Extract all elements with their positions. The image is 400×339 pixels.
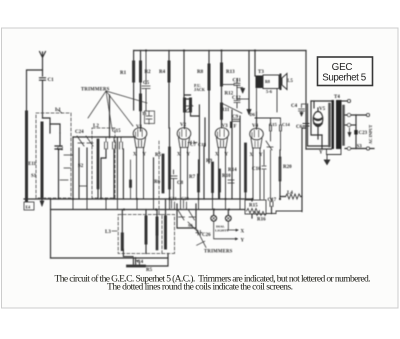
- svg-text:D6: D6: [250, 112, 256, 117]
- svg-text:L5: L5: [287, 79, 293, 84]
- svg-text:V2: V2: [180, 123, 187, 128]
- svg-text:TRIMMERS: TRIMMERS: [81, 88, 110, 93]
- svg-text:T4: T4: [334, 95, 340, 100]
- svg-text:X: X: [133, 153, 137, 158]
- svg-text:R20: R20: [283, 165, 292, 170]
- svg-text:C5: C5: [143, 81, 150, 86]
- svg-text:S2: S2: [78, 164, 84, 169]
- svg-text:X: X: [177, 153, 181, 158]
- svg-text:V5: V5: [319, 107, 326, 112]
- svg-text:R5: R5: [146, 268, 153, 273]
- svg-text:R4: R4: [159, 70, 166, 75]
- svg-text:S3: S3: [357, 145, 363, 150]
- svg-text:C12: C12: [232, 96, 241, 101]
- svg-text:R13: R13: [226, 70, 235, 75]
- svg-text:Y: Y: [187, 153, 191, 158]
- svg-text:L4: L4: [287, 191, 293, 196]
- svg-text:X: X: [241, 229, 245, 234]
- svg-text:C7: C7: [190, 143, 197, 148]
- svg-text:C21: C21: [169, 196, 177, 201]
- svg-text:C26: C26: [202, 233, 211, 238]
- svg-text:T3: T3: [258, 70, 264, 75]
- svg-text:L3: L3: [105, 230, 111, 235]
- svg-text:C18: C18: [198, 142, 206, 147]
- svg-text:R11: R11: [221, 108, 230, 113]
- svg-text:S6: S6: [188, 223, 194, 228]
- svg-text:R15: R15: [249, 204, 258, 209]
- svg-text:Y: Y: [225, 153, 229, 158]
- svg-text:V3: V3: [222, 124, 229, 129]
- svg-text:S1: S1: [31, 174, 37, 179]
- svg-text:Superhet 5: Superhet 5: [322, 73, 366, 84]
- svg-text:C4: C4: [137, 260, 144, 265]
- svg-text:C4: C4: [291, 104, 298, 109]
- svg-text:C16: C16: [252, 167, 261, 172]
- svg-text:X: X: [215, 153, 219, 158]
- svg-text:C2: C2: [57, 147, 64, 152]
- svg-text:T1: T1: [142, 111, 147, 116]
- svg-text:V4: V4: [252, 124, 259, 129]
- svg-text:X: X: [250, 153, 254, 158]
- svg-text:C15: C15: [112, 129, 121, 134]
- svg-text:JACK: JACK: [194, 87, 206, 92]
- svg-text:E4: E4: [26, 205, 31, 210]
- svg-text:R16: R16: [257, 218, 266, 223]
- svg-text:R10: R10: [222, 174, 231, 179]
- svg-text:Y: Y: [143, 153, 147, 158]
- svg-text:V1: V1: [136, 125, 143, 130]
- svg-text:R14: R14: [228, 168, 237, 173]
- svg-text:R2: R2: [145, 70, 152, 75]
- svg-text:C14: C14: [282, 122, 290, 127]
- svg-text:C8: C8: [177, 181, 184, 186]
- svg-text:C11: C11: [233, 79, 242, 84]
- svg-text:5-6: 5-6: [266, 89, 273, 94]
- svg-text:C20: C20: [181, 196, 189, 201]
- svg-text:AC INPUT: AC INPUT: [368, 124, 373, 144]
- svg-text:L2: L2: [93, 124, 99, 129]
- svg-text:C1: C1: [48, 78, 55, 83]
- svg-text:C23: C23: [359, 131, 368, 136]
- svg-text:GEC: GEC: [332, 62, 353, 73]
- svg-text:R9: R9: [206, 159, 213, 164]
- svg-text:R7: R7: [189, 175, 196, 180]
- svg-text:R5: R5: [155, 153, 162, 158]
- svg-text:C9: C9: [232, 115, 239, 120]
- svg-text:C24: C24: [75, 130, 84, 135]
- svg-text:Y: Y: [241, 238, 245, 243]
- svg-text:R8: R8: [197, 70, 204, 75]
- svg-text:LIGHTS: LIGHTS: [215, 228, 228, 232]
- svg-text:The dotted lines round the coi: The dotted lines round the coils indicat…: [107, 281, 293, 292]
- svg-text:Y: Y: [259, 153, 263, 158]
- svg-text:R6: R6: [154, 180, 161, 185]
- svg-text:L1: L1: [55, 108, 61, 113]
- svg-text:E11: E11: [28, 162, 37, 167]
- svg-text:C17: C17: [268, 198, 277, 203]
- svg-text:F: F: [234, 125, 237, 130]
- svg-text:R8: R8: [265, 79, 270, 84]
- svg-text:R1: R1: [120, 71, 127, 76]
- svg-text:TRIMMERS: TRIMMERS: [204, 250, 233, 255]
- svg-text:C6: C6: [296, 125, 303, 130]
- svg-text:Y: Y: [319, 151, 323, 156]
- svg-text:C15: C15: [269, 122, 277, 127]
